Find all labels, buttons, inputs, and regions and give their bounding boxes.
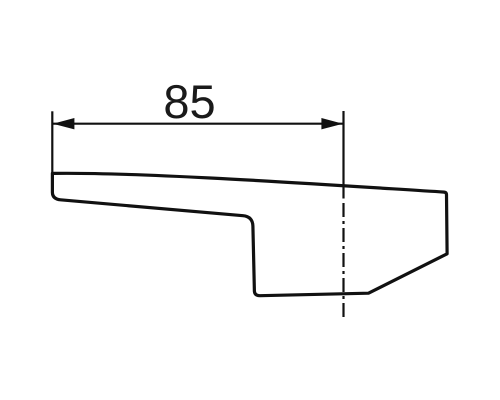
left arrowhead [53, 118, 75, 129]
centerline dash-dot [342, 203, 344, 321]
dimension line [52, 123, 343, 125]
svg-text:85: 85 [163, 75, 215, 128]
lever handle outline [52, 173, 447, 295]
left extension line [51, 111, 53, 172]
right extension line (solid part of centerline) [342, 111, 344, 199]
right arrowhead [321, 118, 343, 129]
